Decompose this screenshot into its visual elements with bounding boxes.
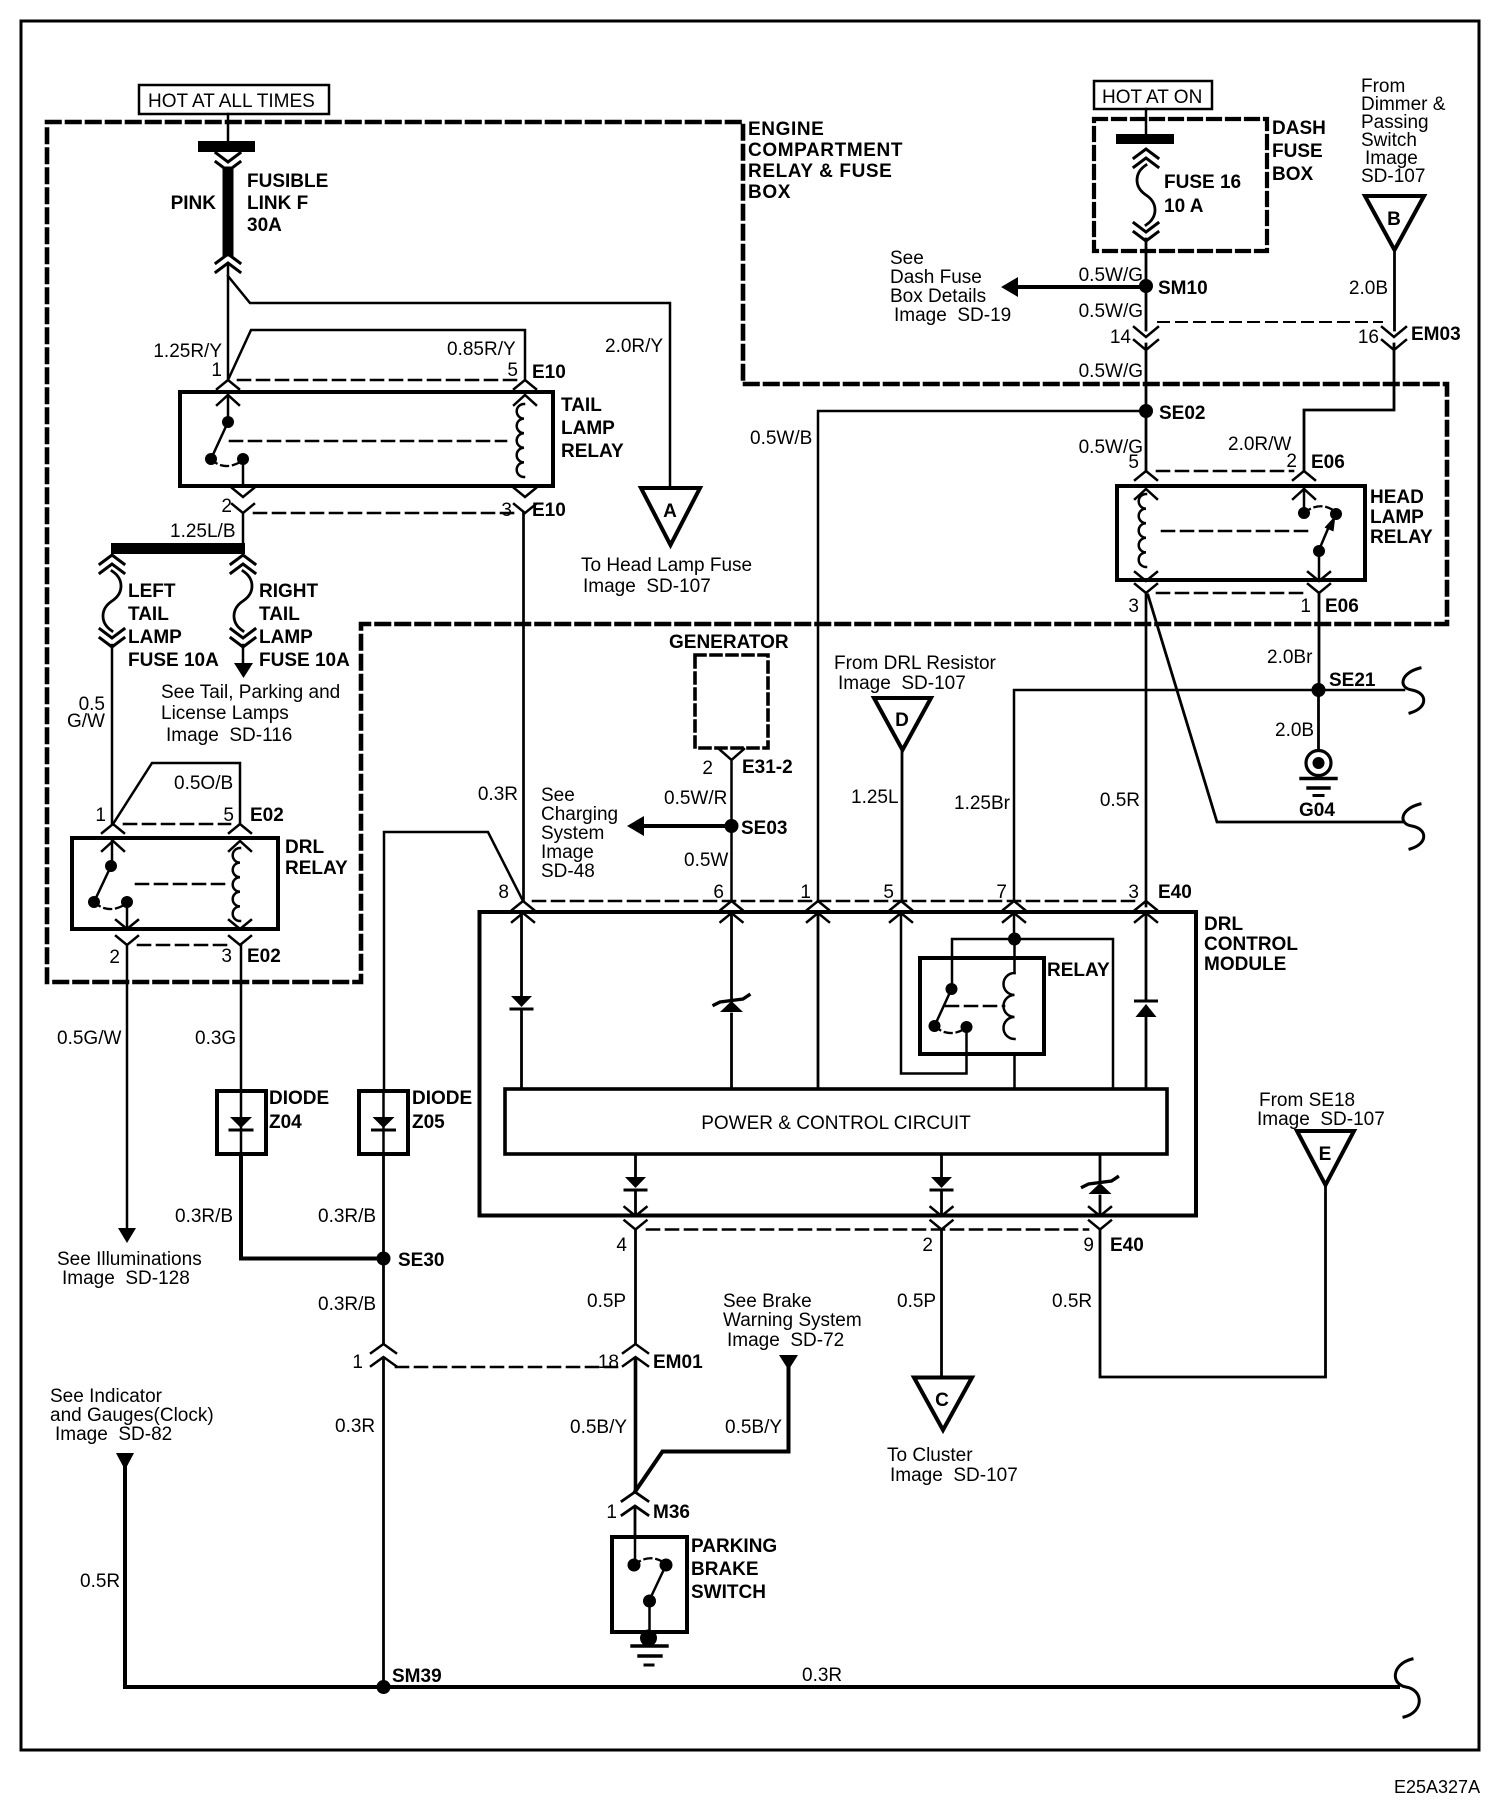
left fuse connector chevrons bottom xyxy=(100,629,124,647)
svg-text:SM39: SM39 xyxy=(392,1666,442,1687)
wire pin 2 down to connector C (0.5P) xyxy=(940,1230,943,1378)
tail lamp relay pin dashed line top (1-5 E10) xyxy=(238,379,518,382)
pin 1 connector chevrons xyxy=(102,824,124,851)
svg-text:A: A xyxy=(663,501,677,522)
svg-text:1: 1 xyxy=(352,1352,363,1373)
wire SE21 right to off-page xyxy=(1319,689,1405,692)
switch arm pivot dot xyxy=(643,1595,656,1608)
pin 1 connector chevrons xyxy=(1308,572,1330,593)
wire left fuse down to DRL relay pin 1 (0.5G/W) xyxy=(111,645,114,824)
wire pin 9 to connector E (0.5R) xyxy=(1100,1186,1326,1377)
svg-text:7: 7 xyxy=(996,882,1007,903)
svg-text:TAIL: TAIL xyxy=(561,395,602,416)
connector M36 chevrons xyxy=(622,1492,648,1515)
svg-text:DRL: DRL xyxy=(285,837,324,858)
arrow from indicator note xyxy=(116,1453,134,1470)
wire DRL pin 3 down to diode Z04 (0.3G) xyxy=(240,945,243,1091)
diode at pin 4 (anode top) xyxy=(625,1177,646,1190)
wire connector 14 to SE02 (0.5W/G) xyxy=(1145,344,1148,411)
svg-text:DIODE: DIODE xyxy=(412,1088,472,1109)
fuse 16 feed bar xyxy=(1116,134,1174,144)
DRL relay coil xyxy=(233,848,240,921)
connector 16 chevrons xyxy=(1382,327,1406,350)
DRL RELAY label xyxy=(285,837,348,879)
svg-text:E10: E10 xyxy=(532,362,566,383)
0.5 G/W label xyxy=(67,694,105,732)
fuse 16 connector chevrons xyxy=(1134,149,1158,167)
diode Z04 wire through xyxy=(240,1091,243,1154)
pin 5 connector chevrons xyxy=(1135,471,1157,499)
svg-text:0.5R: 0.5R xyxy=(80,1571,120,1592)
junction SE02 xyxy=(1139,404,1153,418)
svg-text:1: 1 xyxy=(1300,596,1311,617)
wire branch 2.0R/Y to triangle A xyxy=(228,276,670,488)
svg-text:G04: G04 xyxy=(1299,800,1335,821)
svg-text:1.25R/Y: 1.25R/Y xyxy=(153,341,222,362)
svg-text:0.5P: 0.5P xyxy=(587,1291,626,1312)
fuse 16 lower connector chevrons xyxy=(1134,223,1158,241)
pin 3 connector chevrons xyxy=(1135,572,1157,593)
wire SE30 down to connector 1 (0.3R/B) xyxy=(382,1259,385,1345)
svg-text:1: 1 xyxy=(800,882,811,903)
off-page squiggle right end of SM39 wire xyxy=(1395,1659,1419,1717)
internal relay switch arm xyxy=(935,989,952,1025)
svg-text:See Brake: See Brake xyxy=(723,1291,812,1312)
svg-text:HEAD: HEAD xyxy=(1370,487,1424,508)
svg-text:Image SD-72: Image SD-72 xyxy=(727,1330,844,1351)
module pin 1 chevrons xyxy=(807,901,829,922)
wire power circuit to pin 4 diode xyxy=(634,1154,637,1177)
switch output contact dot xyxy=(121,896,133,908)
svg-text:Image: Image xyxy=(541,842,594,863)
wire diode 2 to pin 2 xyxy=(940,1190,943,1216)
diode at pin 8 (anode top) xyxy=(511,996,532,1009)
connector D triangle xyxy=(874,698,931,750)
svg-text:0.5R: 0.5R xyxy=(1052,1291,1092,1312)
svg-text:3: 3 xyxy=(501,500,512,521)
right fuse connector chevrons bottom xyxy=(231,629,255,647)
svg-text:0.5W/B: 0.5W/B xyxy=(750,428,812,449)
tail lamp relay pin dashed line bottom (2-3 E10) xyxy=(254,512,514,515)
internal relay output contact dot xyxy=(961,1021,973,1033)
tail lamp relay switch wire from pin 1 xyxy=(227,395,230,422)
svg-text:RELAY: RELAY xyxy=(285,858,348,879)
svg-text:5: 5 xyxy=(507,360,518,381)
wire SE21 left to module pin 7 (1.25Br) xyxy=(1014,690,1319,901)
switch fixed contact dot xyxy=(105,860,117,872)
wire diode 8 to power circuit xyxy=(520,1009,523,1089)
tail lamp relay box xyxy=(180,392,553,486)
svg-text:E40: E40 xyxy=(1110,1235,1144,1256)
wire into pin 8 from SE30 branch (0.3R) xyxy=(384,832,523,1091)
svg-text:5: 5 xyxy=(223,805,234,826)
fusible link F element (thick) xyxy=(223,172,234,251)
svg-text:1: 1 xyxy=(95,805,106,826)
svg-text:SE21: SE21 xyxy=(1329,670,1376,691)
svg-text:0.5W/G: 0.5W/G xyxy=(1079,265,1143,286)
svg-text:TAIL: TAIL xyxy=(259,604,300,625)
svg-text:1: 1 xyxy=(211,360,222,381)
pin 3 connector chevrons xyxy=(229,920,251,945)
fusible link feed bar xyxy=(198,141,255,152)
junction SE30 xyxy=(377,1252,391,1266)
generator dashed box xyxy=(695,655,768,748)
See Indicator and Gauges note xyxy=(50,1386,214,1445)
svg-text:and Gauges(Clock): and Gauges(Clock) xyxy=(50,1405,214,1426)
pin 2 connector chevrons xyxy=(1293,471,1315,499)
HOT AT ALL TIMES label box xyxy=(139,85,329,114)
wire SE02 down to head lamp relay pin 5 (0.5W/G) xyxy=(1145,411,1148,471)
wire coil bottom to power circuit xyxy=(1013,1054,1016,1089)
module internal relay box xyxy=(920,958,1044,1054)
switch wire in xyxy=(634,1537,637,1564)
svg-text:To Head Lamp Fuse: To Head Lamp Fuse xyxy=(581,555,752,576)
To Head Lamp Fuse note xyxy=(581,555,752,597)
switch arm pivot dot xyxy=(1313,545,1325,557)
wire pin 3 to diode xyxy=(1145,913,1148,1000)
svg-text:Image SD-19: Image SD-19 xyxy=(894,305,1011,326)
wire zener 6 to power circuit xyxy=(730,1014,733,1089)
svg-text:Warning System: Warning System xyxy=(723,1310,862,1331)
wire switch contact to pin 2 xyxy=(242,459,245,486)
svg-text:BOX: BOX xyxy=(748,182,791,203)
parking brake ground symbol xyxy=(632,1630,667,1666)
zener diode at pin 6 (cathode top) xyxy=(714,995,749,1012)
See Tail Parking and License Lamps note xyxy=(161,682,340,746)
wire pivot to pin 1 xyxy=(1318,551,1321,580)
svg-text:2.0R/W: 2.0R/W xyxy=(1228,434,1291,455)
dashed link connector 1 to EM01 xyxy=(396,1366,622,1369)
power and control circuit box xyxy=(505,1089,1167,1154)
svg-text:DRL: DRL xyxy=(1204,914,1243,935)
tail lamp relay internal linkage dashed xyxy=(230,440,506,443)
wire pin 6 to zener xyxy=(730,913,733,999)
wire pin 7 to relay junction xyxy=(1013,913,1016,939)
svg-text:HOT AT ON: HOT AT ON xyxy=(1102,87,1202,108)
svg-text:E31-2: E31-2 xyxy=(742,757,793,778)
wire EM03 down to E06 pin 2 (2.0R/W) xyxy=(1304,344,1394,471)
svg-text:3: 3 xyxy=(1128,882,1139,903)
svg-text:2: 2 xyxy=(922,1235,933,1256)
svg-text:SD-107: SD-107 xyxy=(1361,166,1425,187)
svg-text:Image SD-116: Image SD-116 xyxy=(166,725,292,746)
wire EM01 down to M36 (0.5B/Y) xyxy=(634,1360,638,1492)
wire switch contact to pin 2 xyxy=(126,902,129,929)
wire fuse 16 to SM10 (0.5W/G) xyxy=(1145,239,1148,286)
svg-text:EM01: EM01 xyxy=(653,1352,703,1373)
svg-text:6: 6 xyxy=(713,882,724,903)
svg-text:From SE18: From SE18 xyxy=(1259,1090,1355,1111)
svg-text:RELAY: RELAY xyxy=(1370,527,1433,548)
junction SM10 xyxy=(1139,279,1153,293)
LEFT TAIL LAMP FUSE 10A label xyxy=(128,581,219,671)
diagonal branch wire from pin 3 to off-page xyxy=(1148,595,1404,822)
head lamp relay coil xyxy=(1139,494,1146,567)
svg-text:LAMP: LAMP xyxy=(259,627,313,648)
DRL relay switch wire from pin 1 xyxy=(111,841,114,866)
From SE18 note xyxy=(1257,1090,1385,1130)
wire power circuit to pin 9 zener xyxy=(1099,1154,1102,1180)
diode Z05 wire through xyxy=(382,1091,385,1154)
wire SE02 left and down to module pin 1 (0.5W/B) xyxy=(818,411,1146,901)
switch dashed throw arc xyxy=(1304,506,1336,513)
arrow to tail parking license lamps xyxy=(234,663,253,678)
wire M36 to parking brake switch xyxy=(634,1509,637,1537)
See Illuminations note xyxy=(57,1249,202,1289)
relay top wire left to switch xyxy=(952,939,1015,988)
From Dimmer and Passing Switch note xyxy=(1361,76,1446,187)
pin 5 connector chevrons xyxy=(229,824,251,851)
RIGHT TAIL LAMP FUSE 10A label xyxy=(259,581,350,671)
svg-text:LAMP: LAMP xyxy=(561,418,615,439)
relay junction dot xyxy=(1008,933,1021,946)
svg-text:DIODE: DIODE xyxy=(269,1088,329,1109)
svg-text:0.5W/R: 0.5W/R xyxy=(664,788,727,809)
wire diode 4 to pin 4 xyxy=(634,1190,637,1216)
svg-text:Image SD-107: Image SD-107 xyxy=(838,673,966,694)
svg-text:D: D xyxy=(895,710,909,731)
connector C triangle xyxy=(914,1378,972,1431)
switch arm with arrowhead xyxy=(1319,516,1336,551)
wire branch 0.85R/Y from pin 1 to pin 5 xyxy=(228,330,525,380)
svg-text:FUSE: FUSE xyxy=(1272,141,1323,162)
svg-text:18: 18 xyxy=(598,1352,619,1373)
svg-text:See Tail, Parking and: See Tail, Parking and xyxy=(161,682,340,703)
svg-text:PARKING: PARKING xyxy=(691,1536,777,1557)
wire pin 1 down to SE21 (2.0Br) xyxy=(1318,593,1321,690)
svg-text:5: 5 xyxy=(1128,452,1139,473)
svg-text:0.5W/G: 0.5W/G xyxy=(1079,361,1143,382)
svg-text:0.3R/B: 0.3R/B xyxy=(175,1206,233,1227)
svg-text:E02: E02 xyxy=(250,805,284,826)
wire module pin 4 down to EM01 (0.5P) xyxy=(634,1230,637,1344)
svg-text:RELAY: RELAY xyxy=(561,441,624,462)
svg-text:C: C xyxy=(935,1390,949,1411)
internal relay linkage dashed xyxy=(946,1005,1004,1008)
svg-text:Z05: Z05 xyxy=(412,1112,445,1133)
svg-text:2.0B: 2.0B xyxy=(1275,720,1314,741)
svg-text:COMPARTMENT: COMPARTMENT xyxy=(748,140,903,161)
svg-text:SE02: SE02 xyxy=(1159,403,1205,424)
svg-text:9: 9 xyxy=(1083,1235,1094,1256)
svg-text:See: See xyxy=(890,248,924,269)
dashed link 14 to 16 xyxy=(1158,321,1382,323)
svg-text:PINK: PINK xyxy=(171,193,217,214)
svg-text:2.0B: 2.0B xyxy=(1349,278,1388,299)
svg-text:4: 4 xyxy=(616,1235,627,1256)
svg-text:Image SD-128: Image SD-128 xyxy=(62,1268,190,1289)
svg-text:See Indicator: See Indicator xyxy=(50,1386,163,1407)
svg-text:BOX: BOX xyxy=(1272,164,1314,185)
svg-text:M36: M36 xyxy=(653,1502,690,1523)
wire indicator arrow down to SM39 line (0.5R) xyxy=(123,1468,127,1687)
svg-text:FUSE 16: FUSE 16 xyxy=(1164,172,1241,193)
pin 2 connector chevrons xyxy=(116,920,138,945)
svg-text:0.5W: 0.5W xyxy=(684,850,728,871)
svg-text:SWITCH: SWITCH xyxy=(691,1582,766,1603)
switch arm contact dot xyxy=(88,896,100,908)
svg-text:FUSE 10A: FUSE 10A xyxy=(128,650,219,671)
diode at pin 3 (cathode top) xyxy=(1136,1001,1157,1017)
inline connector pin 1 chevrons xyxy=(371,1344,396,1366)
wire SE03 down to module pin 6 (0.5W) xyxy=(730,826,733,901)
wire pin 3 down to module pin 3 E40 (0.5R) xyxy=(1145,593,1148,906)
svg-text:5: 5 xyxy=(883,882,894,903)
PARKING BRAKE SWITCH label xyxy=(691,1536,777,1603)
svg-text:3: 3 xyxy=(221,946,232,967)
svg-text:See: See xyxy=(541,785,575,806)
svg-text:B: B xyxy=(1387,209,1401,230)
switch second contact dot xyxy=(660,1559,673,1572)
SM39 bus wire (0.3R) xyxy=(125,1685,1398,1689)
module pin 6 chevrons xyxy=(721,901,743,922)
svg-text:2.0Br: 2.0Br xyxy=(1267,647,1313,668)
pin 1 connector chevrons xyxy=(217,380,239,405)
internal relay coil xyxy=(1004,973,1015,1039)
svg-text:MODULE: MODULE xyxy=(1204,954,1286,975)
svg-text:3: 3 xyxy=(1128,596,1139,617)
junction SE21 xyxy=(1312,683,1326,697)
wire connector 1 down to SM39 (0.3R) xyxy=(382,1360,385,1687)
relay top wire right and down to power circuit xyxy=(1015,939,1114,1089)
svg-text:Box Details: Box Details xyxy=(890,286,986,307)
arrow to illuminations xyxy=(118,1228,136,1243)
internal relay dashed throw arc xyxy=(935,1026,967,1033)
svg-text:10 A: 10 A xyxy=(1164,196,1204,217)
switch arm xyxy=(94,866,111,902)
off-page squiggle lower xyxy=(1403,804,1424,849)
module pin 7 chevrons xyxy=(1003,901,1025,922)
switch input contact dot xyxy=(628,1559,641,1572)
svg-text:Z04: Z04 xyxy=(269,1112,302,1133)
svg-text:0.5W/G: 0.5W/G xyxy=(1079,301,1143,322)
arrowhead left xyxy=(1001,277,1018,297)
dash fuse box dashed outline xyxy=(1094,119,1267,251)
svg-text:E02: E02 xyxy=(247,946,281,967)
wire pin 3 E10 down to module pin 8 (0.3R) xyxy=(522,513,525,901)
head lamp relay pin dashed bottom (3-1 E06) xyxy=(1157,592,1308,595)
FUSIBLE LINK F 30A label xyxy=(247,171,328,236)
engine compartment relay &amp; fuse box dashed outline xyxy=(47,122,1447,982)
connector A triangle xyxy=(641,488,700,545)
svg-text:2: 2 xyxy=(1286,451,1297,472)
wire diode 3 to power circuit xyxy=(1145,1017,1148,1089)
connector EM01 chevrons xyxy=(623,1344,648,1366)
switch arm contact dot xyxy=(205,453,217,465)
svg-text:HOT AT ALL TIMES: HOT AT ALL TIMES xyxy=(148,91,315,112)
wire power circuit to pin 2 diode xyxy=(940,1154,943,1177)
svg-text:0.3R: 0.3R xyxy=(478,784,518,805)
DRL relay pin dashed line bottom (2-3 E02) xyxy=(138,944,229,947)
To Cluster note xyxy=(887,1445,1018,1486)
DIODE Z05 label xyxy=(412,1088,472,1133)
engine compartment box label xyxy=(748,119,903,203)
svg-text:8: 8 xyxy=(498,882,509,903)
DRL control module box xyxy=(480,912,1197,1216)
wire Z05 down to SE30 xyxy=(382,1154,385,1259)
switch fixed contact dot xyxy=(1298,507,1310,519)
svg-text:0.3R: 0.3R xyxy=(335,1416,375,1437)
wire coil top from junction xyxy=(1013,939,1016,973)
wire arm to ground xyxy=(648,1601,651,1632)
svg-text:Image SD-107: Image SD-107 xyxy=(890,1465,1018,1486)
switch dashed throw arc xyxy=(211,459,242,466)
wire zener 9 to pin 9 xyxy=(1099,1196,1102,1216)
svg-text:30A: 30A xyxy=(247,215,282,236)
svg-text:1: 1 xyxy=(606,1502,617,1523)
left fuse connector chevrons top xyxy=(100,555,124,573)
module pin 9 chevrons xyxy=(1089,1207,1111,1230)
svg-text:SE03: SE03 xyxy=(741,818,787,839)
svg-text:See Illuminations: See Illuminations xyxy=(57,1249,202,1270)
wire SM10 to connector 14 (0.5W/G) xyxy=(1145,286,1148,330)
svg-text:ENGINE: ENGINE xyxy=(748,119,824,140)
svg-text:FUSIBLE: FUSIBLE xyxy=(247,171,328,192)
svg-text:Image SD-107: Image SD-107 xyxy=(583,576,711,597)
DIODE Z04 label xyxy=(269,1088,329,1133)
wire pin 2 to fuse feed bar (1.25L/B) xyxy=(242,513,245,543)
internal relay arm contact dot xyxy=(929,1020,941,1032)
svg-text:RIGHT: RIGHT xyxy=(259,581,319,602)
svg-text:SD-48: SD-48 xyxy=(541,861,595,882)
generator pin 2 connector V xyxy=(719,749,744,760)
See Dash Fuse Box Details note xyxy=(890,248,1011,326)
switch fixed contact dot xyxy=(222,416,234,428)
svg-text:POWER & CONTROL CIRCUIT: POWER & CONTROL CIRCUIT xyxy=(701,1113,971,1134)
switch second contact dot xyxy=(1330,508,1342,520)
DRL relay box xyxy=(72,838,278,929)
junction SM39 xyxy=(377,1680,391,1694)
svg-text:FUSE 10A: FUSE 10A xyxy=(259,650,350,671)
svg-text:16: 16 xyxy=(1358,327,1379,348)
switch arm xyxy=(650,1565,667,1600)
See Brake Warning System note xyxy=(723,1291,862,1351)
arrow wire to dash fuse box details xyxy=(1018,285,1146,289)
svg-text:2: 2 xyxy=(702,758,713,779)
HOT AT ON label box xyxy=(1094,81,1212,109)
wire generator to SE03 (0.5W/R) xyxy=(730,760,733,826)
wire D down to module pin 5 (1.25L) xyxy=(901,750,904,901)
module pin 3 chevrons xyxy=(1135,901,1157,922)
svg-text:SM10: SM10 xyxy=(1158,278,1208,299)
svg-text:0.5B/Y: 0.5B/Y xyxy=(725,1417,782,1438)
pin 5 connector chevrons xyxy=(514,380,536,405)
left tail lamp fuse element xyxy=(103,571,121,631)
svg-text:GENERATOR: GENERATOR xyxy=(669,632,789,653)
DRL relay internal linkage dashed xyxy=(136,883,228,886)
svg-text:LEFT: LEFT xyxy=(128,581,176,602)
arrow from brake warning note xyxy=(779,1355,798,1370)
svg-text:0.3R/B: 0.3R/B xyxy=(318,1294,376,1315)
connector chevrons below fusible link xyxy=(216,254,240,272)
svg-text:E: E xyxy=(1319,1144,1332,1165)
FUSE 16 10 A label xyxy=(1164,172,1241,217)
svg-text:E25A327A: E25A327A xyxy=(1394,1777,1480,1797)
svg-text:RELAY & FUSE: RELAY & FUSE xyxy=(748,161,892,182)
svg-text:TAIL: TAIL xyxy=(128,604,169,625)
diode Z05 box xyxy=(359,1091,408,1154)
See Charging System note xyxy=(541,785,618,882)
wire fusible link to tail lamp relay pin 1 (1.25R/Y) xyxy=(227,264,230,380)
svg-text:LAMP: LAMP xyxy=(128,627,182,648)
HEAD LAMP RELAY label xyxy=(1370,487,1433,548)
diode at pin 2 (anode top) xyxy=(931,1177,952,1190)
right tail lamp fuse element xyxy=(234,571,252,631)
parking brake switch box xyxy=(612,1537,687,1632)
diode Z04 symbol xyxy=(230,1117,252,1130)
pin 2 connector chevrons xyxy=(232,488,254,513)
tail lamp fuse feed bar 1.25L/B xyxy=(111,543,245,554)
